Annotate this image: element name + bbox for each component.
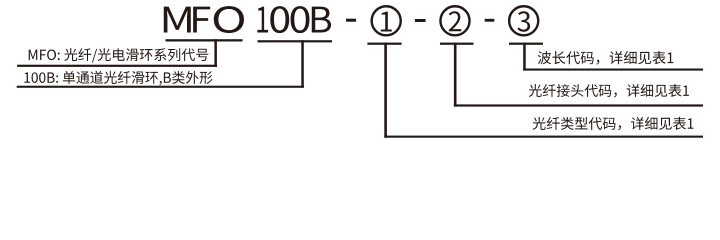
title letter M (0) [164, 7, 191, 33]
title letter 1 (3) [257, 7, 268, 33]
title letter O (2) [214, 6, 244, 33]
title letter 0 (4) [270, 6, 289, 33]
title letter B (6) [312, 7, 331, 33]
series label underline (box bottom) [17, 65, 217, 67]
wavelength label text [538, 51, 674, 65]
connector-code label text [529, 84, 689, 97]
100B label text 100B: ... [24, 71, 212, 86]
hyphen separator 1 [346, 19, 356, 22]
circled number 2 [440, 6, 469, 35]
series label text MFO: ... [29, 48, 209, 62]
title letter F (1) [193, 7, 210, 33]
underline under circled 3 [509, 43, 543, 45]
connector wire from MFO underline to series label box [214, 39, 217, 67]
100B label underline [17, 86, 304, 88]
connector-code label underline [454, 104, 703, 106]
fiber-type label underline [384, 136, 703, 138]
underline under circled 1 [367, 43, 401, 45]
fiber-type label text [533, 117, 694, 130]
underline under circled 2 [440, 43, 474, 45]
connector wire from 100B underline to type label [301, 40, 304, 88]
underline under MFO [166, 39, 243, 41]
connector wire from circled 2 to connector-code label [454, 43, 457, 107]
title letter 0 (5) [291, 6, 310, 33]
connector wire from circled 3 to wavelength label [523, 43, 526, 71]
circled number 1 [372, 6, 401, 35]
circled number 3 [509, 6, 538, 35]
hyphen separator 2 [415, 19, 426, 22]
underline under 100B [258, 40, 333, 42]
wavelength label underline [523, 69, 703, 71]
connector wire from circled 1 to fiber-type label [384, 43, 387, 138]
hyphen separator 3 [485, 19, 495, 22]
